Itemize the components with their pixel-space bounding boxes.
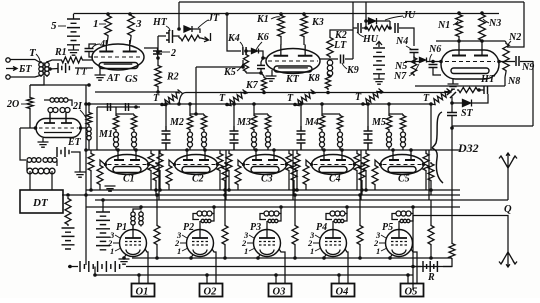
AVC wire left segment [95, 91, 179, 93]
wire P5 cathode lead [390, 255, 392, 259]
rheostat T3 [295, 90, 316, 106]
wire C1 inner res bottom [99, 186, 101, 190]
wire transformer P5 to bus [412, 207, 414, 214]
wire C2 left pin [159, 150, 161, 152]
junction N cluster [412, 60, 416, 64]
junction C2 plate rail [203, 148, 207, 152]
wire K cluster in [227, 44, 241, 51]
capacitor HU left [358, 23, 361, 33]
junction filament drop [93, 273, 97, 277]
ground center battery [374, 79, 385, 84]
interstage vertical 1 [158, 150, 160, 200]
resistor C4 right outer [354, 152, 360, 172]
svg-text:N6: N6 [428, 44, 441, 55]
svg-text:2: 2 [170, 48, 176, 59]
junction P4 resistor bus [358, 193, 362, 197]
wire M2 coil bottoms [189, 147, 191, 150]
resistor bias left [65, 197, 71, 226]
wire C4 inner res bottom [305, 186, 307, 190]
ground left of KT [266, 76, 277, 81]
input terminal lower [6, 75, 10, 79]
tube C1 [104, 150, 150, 175]
svg-text:Т: Т [423, 93, 430, 104]
junction K cluster y67 [241, 65, 245, 69]
junction T3 top [311, 91, 315, 95]
wire HT node drop [157, 36, 159, 52]
junction N3 top [480, 11, 484, 15]
junction battery R left [411, 265, 415, 269]
svg-text:О1: О1 [136, 287, 149, 298]
wire M3 coil bottoms [253, 147, 255, 150]
wire transformer P2 to bus [213, 207, 215, 214]
resistor C2 left outer [157, 152, 163, 172]
ground under P1 [119, 259, 130, 264]
wire KT plate to K9 [320, 58, 338, 60]
bus y200 [95, 199, 508, 201]
resistor M3 primary [251, 114, 257, 131]
transformer P1 winding B [139, 211, 143, 227]
wire C2 right pins [219, 150, 221, 152]
transformer 2I secondary [60, 108, 70, 113]
tube C3 [242, 150, 288, 175]
junction C4 grid rail [322, 148, 326, 152]
wire 2O bottom to ET [29, 110, 31, 128]
wire DT battery to ground lead [71, 152, 80, 166]
svg-text:R2: R2 [166, 72, 179, 83]
resistor 3 [128, 14, 135, 37]
wire transformer P4 right [344, 214, 347, 222]
leader K4 [240, 42, 243, 48]
svg-text:К8: К8 [307, 73, 320, 84]
wire C3 left res bottom [228, 172, 230, 190]
wire K9 to drop [345, 58, 353, 60]
wire resistor to battery R [443, 260, 452, 267]
svg-text:Т: Т [153, 93, 160, 104]
wire P2 resistor bottom [224, 246, 226, 258]
resistor P3 load [292, 224, 298, 246]
leader P3 pins [247, 235, 255, 251]
leader T label [36, 54, 40, 62]
svg-text:С3: С3 [261, 174, 273, 185]
leader N6 [430, 54, 432, 62]
elbow AVC wire [179, 93, 186, 105]
wire M5 coil bottoms [388, 147, 390, 150]
wire P4 cathode drop B [345, 249, 348, 283]
tube C2 [173, 150, 219, 175]
interstage vertical 5 [428, 150, 430, 200]
resistor P1 load [154, 224, 160, 246]
junction K8 bus [326, 91, 330, 95]
svg-text:2О: 2О [6, 99, 19, 110]
svg-text:5: 5 [51, 20, 57, 32]
interstage vertical 4 [360, 150, 362, 200]
junction N3 bottom [480, 39, 484, 43]
wire ET right [81, 127, 86, 129]
junction battery B bus [101, 198, 105, 202]
battery bias A [62, 228, 75, 249]
box O3 [269, 284, 292, 297]
junction C4 plate rail [340, 148, 344, 152]
svg-text:N8: N8 [507, 76, 520, 87]
junction rail y104 [84, 102, 88, 106]
rheostat T1 [162, 90, 183, 106]
wire diode to KT [259, 51, 267, 58]
svg-text:АТ: АТ [106, 73, 120, 84]
wire C2 right res bottom [219, 172, 221, 190]
leader JU [385, 16, 403, 20]
tube C5 [379, 150, 425, 175]
wire transformer P1 top bracket [133, 207, 141, 212]
wire P2 resistor to bus [224, 195, 226, 224]
wire M3 top [254, 113, 268, 115]
resistor M4 secondary [337, 114, 343, 131]
junction M2 capacitor bus [164, 102, 168, 106]
antenna lower [499, 252, 517, 267]
wire C2 right inner bottom [224, 182, 226, 195]
junction T3 bottom [293, 103, 297, 107]
variable capacitor M5 [364, 126, 373, 150]
wire P5 cathode drop A [407, 275, 409, 283]
svg-text:3: 3 [135, 18, 142, 30]
svg-text:R: R [427, 272, 435, 283]
wire coil ET right [68, 100, 72, 106]
tube P3 [254, 227, 281, 257]
junction K7 bottom [259, 71, 263, 75]
wire M3 coil bottoms b [267, 147, 269, 150]
svg-text:R1: R1 [54, 47, 67, 58]
variable capacitor M4 [297, 126, 306, 150]
wire C3 inner res bottom [237, 186, 239, 190]
wire diode JT out [192, 29, 200, 33]
junction P4 cathode bus [322, 256, 326, 260]
wire P1 cathode drop A [138, 275, 140, 283]
junction HU right [388, 26, 392, 30]
wire transformer P2 right [211, 214, 214, 222]
junction C3 grid rail [254, 148, 258, 152]
junction M1 input bus [87, 102, 91, 106]
wire M1 coil bottoms [115, 147, 117, 150]
resistor M5 primary [386, 114, 392, 131]
vertical x452 upper [451, 97, 453, 112]
heptode ET capsule [36, 113, 81, 138]
variable capacitor M2 [162, 126, 171, 150]
wire transformer to R1 level [47, 60, 60, 62]
junction P4 bus275 [337, 273, 341, 277]
wire K2 top [330, 30, 353, 36]
resistor C5 right outer [423, 152, 429, 172]
wire transformer P5 right [410, 214, 413, 222]
capacitor ST right small [484, 86, 488, 94]
wire oscillator coupling horizontal [196, 66, 243, 68]
junction C4 right bottom [360, 188, 364, 192]
wire DT winding left [26, 160, 28, 171]
wire N6 bottom [433, 68, 441, 75]
svg-text:НТ: НТ [152, 17, 168, 28]
wire M2 top drop [189, 104, 191, 114]
coil M2 secondary [202, 131, 207, 149]
coil M1 primary [114, 131, 119, 149]
junction P5 cathode bus [388, 256, 392, 260]
wire P4 cathode lead [324, 255, 326, 259]
svg-text:1: 1 [310, 246, 314, 256]
wire C3 right res bottom [288, 172, 290, 190]
wire M1 input top [88, 104, 90, 111]
wire transformer P4 to bus [346, 207, 348, 214]
svg-text:БТ: БТ [18, 64, 32, 75]
wire N2 bottom lead [505, 72, 506, 77]
junction P1 cathode bus [122, 256, 126, 260]
box DT [20, 190, 63, 213]
wire ET cathode ground [42, 138, 44, 142]
wire JU branch right [377, 20, 390, 22]
leader P1 pins [113, 235, 121, 251]
junction cap2 bottom [156, 56, 160, 60]
wire R1 to AT grid [84, 59, 93, 61]
pentode KT [266, 45, 320, 74]
svg-text:N1: N1 [437, 20, 450, 31]
junction C3 left bottom [227, 188, 231, 192]
bracket transformer P2 [193, 214, 199, 220]
junction NT left pin [439, 60, 443, 64]
wire C1 right res bottom [150, 172, 152, 190]
svg-text:КТ: КТ [285, 74, 300, 85]
wire GT battery leads [50, 68, 58, 71]
frame vertical x366 [365, 2, 367, 28]
resistor K2 [327, 36, 333, 58]
wire P5 resistor bottom [430, 246, 432, 258]
wire transformer bottom to ground rail [30, 76, 44, 85]
resistor C2 left inner [166, 164, 172, 186]
svg-text:JТ: JТ [207, 13, 220, 24]
wire transformer P1 to tube [132, 225, 134, 230]
junction M5 top bus [387, 102, 391, 106]
bracket transformer P4 [326, 214, 332, 220]
battery center [373, 48, 385, 74]
N stage right vertical bottom [504, 77, 506, 86]
resistor C2 right outer [217, 152, 223, 172]
wire C1 right inner bottom [155, 182, 157, 195]
svg-text:М1: М1 [98, 129, 113, 140]
svg-text:М5: М5 [371, 117, 386, 128]
wire NT plate to N9 [499, 61, 515, 63]
resistor 2O [27, 96, 33, 110]
diode N7 [420, 58, 427, 63]
wire C1 right pins [150, 150, 152, 152]
wire cap4 top [89, 44, 96, 48]
transformer T primary winding [39, 61, 43, 77]
resistor C4 left inner [303, 164, 309, 186]
resistor P5 load [428, 224, 434, 246]
junction T2 top [243, 91, 247, 95]
resistor M2 secondary [201, 114, 207, 131]
wire C1 left res bottom [90, 172, 92, 190]
resistor M3 secondary [265, 114, 271, 131]
svg-text:N7: N7 [393, 71, 407, 82]
junction P4 resistor bottom [358, 256, 362, 260]
tube C4 [310, 150, 356, 175]
leader HT [166, 26, 170, 31]
lower grid bus y104 [86, 103, 431, 105]
resistor C3 right outer [286, 152, 292, 172]
junction C2 right bottom [223, 188, 227, 192]
svg-text:JU: JU [402, 10, 416, 21]
wire KT bottom to ground [271, 70, 273, 76]
junction R2 AVC [156, 90, 160, 94]
wire transformer P5 to tube [398, 221, 400, 227]
wire transformer P3 right [278, 214, 281, 222]
wire lower terminal to transformer T [10, 76, 40, 78]
junction M1 b right [134, 105, 138, 109]
wire oscillator coupling drop [195, 67, 197, 114]
svg-text:О3: О3 [273, 287, 286, 298]
svg-text:LТ: LТ [333, 40, 347, 51]
wire K7 bottom [260, 69, 262, 73]
junction T5 bottom [429, 102, 433, 106]
interstage vertical 3 [292, 150, 294, 200]
wire P1 resistor to bus [156, 195, 158, 224]
capacitor M1 a [108, 103, 111, 111]
leader JT [198, 20, 208, 28]
right frame inner [532, 61, 534, 126]
leader N1 [453, 21, 458, 25]
box O4 [332, 284, 355, 297]
wire N3 to NT pin [481, 42, 483, 44]
wire HU entry2 [362, 27, 366, 29]
transformer P2 secondary [201, 219, 211, 222]
junction C5 grid rail [391, 148, 395, 152]
wire K5 bottom join [246, 72, 261, 74]
svg-text:К7: К7 [245, 80, 259, 91]
svg-text:SТ: SТ [461, 108, 474, 119]
wire P1 cathode lead [124, 255, 126, 259]
wire DT ground lead [79, 166, 81, 172]
rheostat T5 [431, 89, 452, 105]
junction rail y195 [84, 193, 88, 197]
leader 2I [80, 110, 86, 118]
junction P3 bus275 [274, 273, 278, 277]
coil M1 secondary [132, 131, 137, 149]
tube P4 [320, 227, 347, 257]
resistor C3 right inner [291, 162, 297, 182]
arrow BT input [6, 67, 17, 71]
wire transformer P2 to tube [199, 221, 201, 227]
junction N1 top [457, 11, 461, 15]
svg-text:К3: К3 [311, 17, 324, 28]
svg-text:1: 1 [110, 246, 114, 256]
wire DT box lead left [29, 171, 31, 190]
resistor N3 [479, 13, 486, 42]
junction P5 resistor bottom [429, 256, 433, 260]
wire C2 grid [169, 160, 174, 165]
wire center battery bottom [378, 74, 380, 79]
battery GT [58, 63, 69, 73]
transformer P4 primary [330, 211, 345, 216]
capacitor 2 [153, 51, 162, 54]
coil M3 primary [252, 131, 257, 149]
svg-text:НU: НU [362, 34, 379, 45]
capacitor K7 [257, 65, 265, 68]
resistor N2 [503, 42, 509, 72]
junction P5 bus275 [406, 273, 410, 277]
junction P1 bus275 [137, 273, 141, 277]
wire antenna lower stem [413, 216, 508, 253]
resistor C3 left inner [235, 164, 241, 186]
junction P2 cathode bus [189, 256, 193, 260]
resistor C4 left outer [294, 152, 300, 172]
leader P2 pins [180, 235, 188, 251]
N stage top wire y41 [436, 40, 505, 42]
resistor C4 right inner [359, 162, 365, 182]
wire M2 top [190, 113, 204, 115]
upper AVC wire y92 [186, 92, 449, 94]
wire upper terminal to transformer T [10, 60, 40, 63]
capacitor N9 [516, 56, 519, 66]
capacitor ST bottom [447, 113, 457, 116]
svg-text:N2: N2 [508, 32, 521, 43]
wire P1 resistor bottom [156, 246, 158, 258]
svg-text:К4: К4 [227, 33, 240, 44]
input terminal upper [6, 58, 10, 62]
diode JT [184, 26, 192, 32]
junction C2 left bottom [158, 188, 162, 192]
wire N4 to cluster [413, 53, 415, 60]
junction transformer P5 bus [411, 205, 415, 209]
AT inner anode box [99, 63, 138, 69]
capacitor ST coupling [447, 89, 456, 98]
junction y85 right [87, 83, 91, 87]
svg-text:N4: N4 [395, 36, 408, 47]
bus y258 [132, 257, 452, 259]
svg-text:N3: N3 [488, 18, 501, 29]
wire HU out [399, 28, 414, 46]
feedback wire y126 [452, 125, 533, 127]
N stage bottom wire y86 [415, 85, 505, 87]
wire ST diode out [471, 94, 488, 103]
resistor M5 secondary [400, 114, 406, 131]
svg-text:НТ: НТ [480, 74, 496, 85]
wire K7 top [261, 58, 263, 65]
arrow JT wiper [201, 33, 211, 42]
battery filament [80, 261, 120, 272]
vertical x431 lower [430, 200, 432, 224]
junction K7 resistor bus [262, 91, 266, 95]
junction oscillator at M2 [194, 112, 198, 116]
wire antenna upper stem [507, 168, 509, 200]
resistor JT grid leak [179, 35, 201, 41]
junction HU left bottom [364, 26, 368, 30]
wire transformer P3 to bus [280, 207, 282, 214]
wire M5 coil bottoms b [402, 147, 404, 150]
junction T1 bottom [160, 103, 164, 107]
wire battery R drop [412, 216, 414, 291]
wire P4 resistor to bus [359, 195, 361, 224]
grid rail y150 [86, 149, 460, 151]
ground under C1 [105, 186, 116, 191]
transformer 2I primary [48, 108, 58, 113]
pentode NT capsule [441, 44, 499, 79]
leader 4 [92, 44, 100, 48]
junction K5 top [244, 49, 248, 53]
leader N4 [406, 46, 412, 50]
wire battery R left [413, 266, 421, 268]
wire M1 top drop left [96, 107, 98, 150]
resistor C5 right inner [428, 162, 434, 182]
junction C3 plate rail [272, 148, 276, 152]
junction D32 wire [450, 126, 454, 130]
coil M4 primary [320, 131, 325, 149]
wire C5 grid [375, 160, 380, 165]
wire C4 right pins [356, 150, 358, 152]
